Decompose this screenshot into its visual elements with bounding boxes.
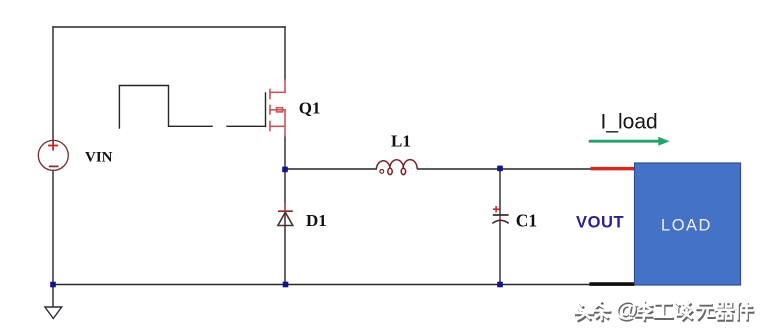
svg-text:VOUT: VOUT xyxy=(576,214,624,232)
svg-text:L1: L1 xyxy=(391,131,411,150)
svg-text:Q1: Q1 xyxy=(299,99,321,118)
svg-text:C1: C1 xyxy=(516,211,537,231)
svg-text:VIN: VIN xyxy=(85,150,113,166)
svg-text:D1: D1 xyxy=(306,211,327,230)
svg-text:@: @ xyxy=(615,297,637,322)
svg-text:I_load: I_load xyxy=(601,111,658,134)
svg-text:LOAD: LOAD xyxy=(661,217,712,235)
